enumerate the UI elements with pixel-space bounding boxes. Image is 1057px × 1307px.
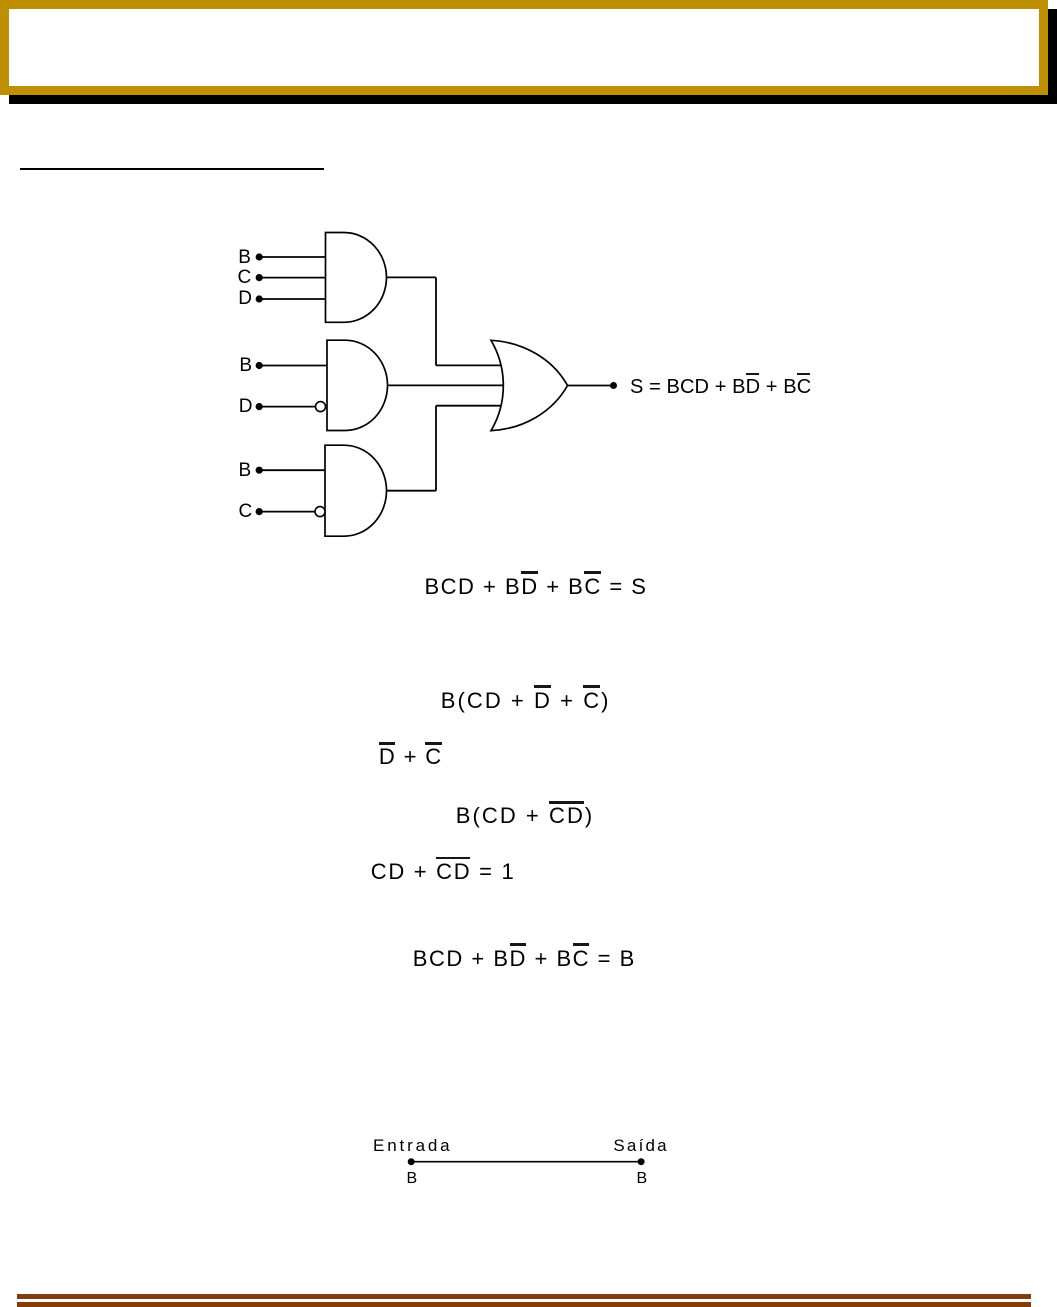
- formula line 4: [456, 805, 594, 827]
- bottom rule thick: [17, 1294, 1031, 1300]
- formula line 2: [441, 690, 611, 712]
- label D input U2: [239, 397, 253, 416]
- wire U3 to OR bottom input: [436, 405, 505, 407]
- label B input U3: [239, 461, 252, 480]
- wire C input gate U1: [259, 277, 326, 279]
- wire U3 output vertical: [435, 406, 437, 491]
- wire C input gate U3: [259, 511, 316, 513]
- node dot input D U2: [256, 403, 263, 410]
- wire U2 to OR middle input: [387, 384, 506, 386]
- node dot Entrada B: [408, 1158, 415, 1165]
- bottom rule thin: [17, 1302, 1031, 1307]
- inverter bubble U2 input D: [316, 402, 326, 412]
- wire D input gate U2: [259, 406, 316, 408]
- node dot input C U1: [256, 274, 263, 281]
- label Saida: [613, 1137, 668, 1154]
- output equation S = BCD + BD + BC: [630, 377, 811, 397]
- wire U3 output horizontal: [386, 490, 436, 492]
- node dot input D U1: [256, 295, 263, 302]
- formula line 5: [371, 861, 516, 883]
- wire B input gate U2: [259, 365, 327, 367]
- node dot input B U1: [256, 253, 263, 260]
- label B below Saida: [637, 1171, 648, 1187]
- label C input U3: [239, 502, 253, 521]
- banner frame: [0, 0, 1048, 95]
- label B input U1: [238, 248, 251, 267]
- heading underline: [20, 168, 324, 170]
- wire B input gate U3: [259, 469, 325, 471]
- label D input U1: [238, 289, 252, 308]
- AND gate U2: [327, 340, 388, 430]
- formula line 1: [425, 576, 648, 598]
- AND gate U3: [325, 445, 387, 536]
- wire OR output: [568, 385, 612, 387]
- node dot Saida B: [638, 1158, 645, 1165]
- wire U1 output vertical: [435, 277, 437, 365]
- inverter bubble U3 input C: [315, 507, 325, 517]
- wire B input gate U1: [259, 256, 326, 258]
- formula line 3: [379, 746, 443, 768]
- formula line 6: [413, 948, 636, 970]
- label C input U1: [238, 268, 252, 287]
- wire U1 output horizontal: [387, 276, 437, 278]
- wire D input gate U1: [259, 298, 326, 300]
- label B input U2: [239, 356, 252, 375]
- OR gate U4: [491, 340, 568, 430]
- node dot input C U3: [256, 508, 263, 515]
- label Entrada: [373, 1137, 453, 1154]
- wire Entrada to Saida: [411, 1161, 641, 1163]
- node dot output S: [610, 382, 617, 389]
- label B below Entrada: [407, 1171, 418, 1187]
- node dot input B U2: [256, 362, 263, 369]
- node dot input B U3: [256, 467, 263, 474]
- AND gate U1: [326, 233, 387, 323]
- wire U1 to OR top input: [436, 364, 505, 366]
